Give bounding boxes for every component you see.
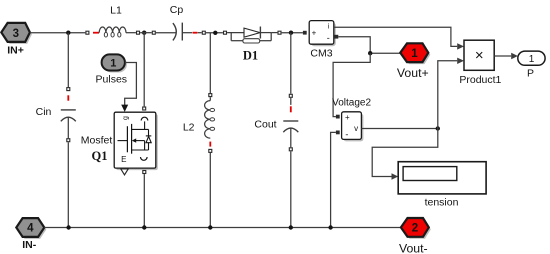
svg-text:Q1: Q1 bbox=[92, 149, 108, 163]
inport Pulses bbox=[102, 54, 127, 72]
svg-text:Vout+: Vout+ bbox=[397, 66, 429, 80]
rotated D label bottom bbox=[141, 157, 148, 160]
svg-text:tension: tension bbox=[425, 197, 459, 209]
output port Vout+ bbox=[400, 43, 430, 64]
wire down to Cin bbox=[67, 33, 69, 87]
svg-text:L2: L2 bbox=[183, 122, 195, 134]
wire Product1 output to P bbox=[494, 55, 511, 57]
svg-text:+: + bbox=[312, 28, 317, 37]
wire L1 junction to Cp bbox=[140, 32, 152, 34]
junction after L1 bbox=[142, 31, 146, 35]
input port 3 IN+ bbox=[1, 23, 32, 44]
capacitor Cp bbox=[152, 23, 205, 41]
svg-text:2: 2 bbox=[412, 223, 418, 235]
voltage measurement block Voltage2 bbox=[336, 112, 364, 142]
capacitor Cin bbox=[61, 88, 76, 142]
junction to L2 bbox=[213, 31, 217, 35]
svg-text:IN+: IN+ bbox=[7, 45, 24, 57]
inductor L2 bbox=[205, 94, 215, 153]
wire node up to Product1 input 2 bbox=[438, 61, 457, 129]
bottom rail wire bbox=[44, 227, 401, 229]
wire junction down to Voltage2 plus bbox=[333, 53, 370, 116]
svg-text:Pulses: Pulses bbox=[96, 74, 128, 86]
svg-text:-: - bbox=[327, 33, 330, 43]
junction node v bbox=[436, 126, 440, 130]
junction top of Cin bbox=[66, 31, 70, 35]
mosfet Q1 block bbox=[114, 112, 158, 170]
output port Vout- bbox=[401, 218, 431, 239]
svg-text:1: 1 bbox=[529, 54, 535, 65]
wire node down to tension display bbox=[372, 129, 438, 177]
svg-text:Vout-: Vout- bbox=[399, 241, 428, 254]
svg-text:g: g bbox=[123, 116, 130, 120]
junction Cin bottom bbox=[66, 225, 70, 229]
mosfet m output arrow bbox=[121, 169, 128, 175]
svg-text:IN-: IN- bbox=[22, 239, 37, 251]
diode D1 with snubber bbox=[224, 27, 282, 44]
wire Cin to bottom rail bbox=[67, 142, 69, 227]
svg-text:P: P bbox=[527, 67, 534, 79]
mosfet symbol bbox=[118, 140, 128, 142]
svg-text:×: × bbox=[475, 47, 484, 64]
junction Cout bottom bbox=[289, 225, 293, 229]
product block Product1 bbox=[464, 40, 494, 70]
svg-text:+: + bbox=[345, 113, 350, 122]
rotated D label top bbox=[141, 117, 148, 120]
output port P bbox=[518, 51, 545, 65]
svg-text:4: 4 bbox=[27, 223, 34, 235]
current measurement block CM3 bbox=[303, 21, 338, 47]
mosfet source port bbox=[143, 171, 146, 174]
wire top rail from IN+ to L1 bbox=[30, 32, 85, 34]
svg-text:1: 1 bbox=[110, 58, 116, 70]
wire L2 to bottom rail bbox=[209, 153, 211, 228]
svg-text:Cin: Cin bbox=[36, 106, 52, 118]
wire Cp to D1 bbox=[206, 32, 223, 34]
svg-text:Mosfet: Mosfet bbox=[81, 135, 113, 147]
wire top rail junction down to mosfet drain bbox=[143, 33, 145, 107]
wire Voltage2 v output to node bbox=[362, 128, 438, 130]
junction to Cout bbox=[289, 31, 293, 35]
wire Voltage2 minus to bottom rail bbox=[331, 132, 336, 227]
wire Cout to bottom rail bbox=[290, 151, 292, 227]
wire CM3 i output to Product1 input 1 bbox=[334, 27, 457, 46]
junction mosfet bottom bbox=[142, 225, 146, 229]
svg-text:L1: L1 bbox=[110, 5, 122, 17]
svg-text:3: 3 bbox=[13, 28, 19, 40]
input port 4 IN- bbox=[16, 218, 46, 239]
svg-text:Cout: Cout bbox=[254, 119, 276, 131]
wire down to Cout bbox=[290, 33, 292, 94]
svg-text:D1: D1 bbox=[243, 49, 258, 63]
junction L2 bottom bbox=[208, 225, 212, 229]
svg-text:Product1: Product1 bbox=[459, 74, 501, 86]
svg-text:Cp: Cp bbox=[170, 4, 184, 16]
capacitor Cout bbox=[283, 94, 298, 151]
wire CM3 minus to Vout+ junction bbox=[338, 37, 400, 54]
wire mosfet to bottom rail bbox=[143, 174, 145, 227]
svg-text:v: v bbox=[354, 124, 358, 133]
inductor L1 bbox=[86, 27, 140, 37]
junction node Vout+ bbox=[368, 51, 372, 55]
wire D1 to CM3 bbox=[282, 32, 303, 34]
junction Voltage2 bottom bbox=[328, 225, 332, 229]
svg-text:CM3: CM3 bbox=[310, 48, 332, 60]
svg-text:-: - bbox=[345, 129, 348, 139]
wire down to L2 bbox=[209, 33, 211, 93]
wire Pulses to mosfet gate bbox=[125, 63, 137, 106]
svg-text:Voltage2: Voltage2 bbox=[332, 97, 371, 108]
svg-text:E: E bbox=[121, 155, 126, 164]
svg-text:1: 1 bbox=[411, 48, 418, 60]
display block tension bbox=[398, 162, 486, 194]
